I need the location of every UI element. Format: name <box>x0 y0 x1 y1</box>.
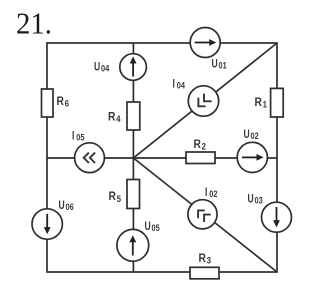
source I02 circle <box>188 200 217 229</box>
wire outer rectangle <box>47 43 277 272</box>
svg-text:02: 02 <box>251 131 259 142</box>
arrow of U04 (points up) <box>130 56 137 76</box>
svg-text:1: 1 <box>263 100 268 111</box>
svg-text:02: 02 <box>209 189 217 200</box>
svg-text:R: R <box>108 110 116 124</box>
svg-text:R: R <box>199 251 207 265</box>
source U05 circle <box>117 229 149 261</box>
svg-text:I: I <box>72 128 74 142</box>
svg-text:2: 2 <box>202 141 206 152</box>
source U03 circle <box>262 202 292 232</box>
label R6 <box>57 94 70 110</box>
resistor R6 body <box>42 89 54 117</box>
svg-text:R: R <box>57 94 65 108</box>
chevrons of I04 (point down-left, L shapes) <box>198 94 211 107</box>
svg-text:04: 04 <box>177 81 186 92</box>
svg-text:R: R <box>255 95 263 109</box>
resistor R3 body <box>190 267 219 279</box>
label I04 <box>173 77 186 92</box>
label U01 <box>212 56 228 71</box>
label R1 <box>255 95 268 111</box>
label U06 <box>59 198 74 213</box>
svg-text:5: 5 <box>117 194 122 205</box>
svg-text:U: U <box>244 127 250 141</box>
label R5 <box>109 189 122 205</box>
chevrons of I02 (point up-left, gamma shapes) <box>198 210 211 222</box>
svg-text:3: 3 <box>207 255 211 266</box>
resistor R1 body <box>271 88 284 117</box>
svg-text:R: R <box>194 137 202 151</box>
source U02 circle <box>237 142 267 172</box>
label U03 <box>248 191 263 206</box>
label R4 <box>108 110 121 126</box>
svg-text:06: 06 <box>66 202 74 213</box>
svg-text:I: I <box>205 185 207 199</box>
svg-text:21.: 21. <box>16 7 52 41</box>
arrow of U01 (points right) <box>195 39 217 46</box>
svg-text:6: 6 <box>65 98 69 109</box>
resistor R5 body <box>127 180 140 209</box>
chevrons of I05 (point left) <box>84 153 95 163</box>
svg-text:R: R <box>109 189 117 203</box>
svg-text:I: I <box>173 77 175 91</box>
svg-text:4: 4 <box>116 114 121 125</box>
svg-text:03: 03 <box>255 195 263 206</box>
svg-text:U: U <box>94 59 100 73</box>
svg-text:U: U <box>212 56 218 70</box>
label R2 <box>194 137 207 153</box>
svg-text:05: 05 <box>152 223 161 234</box>
label I05 <box>72 128 85 143</box>
svg-text:U: U <box>59 198 65 212</box>
svg-text:05: 05 <box>76 132 85 143</box>
label U02 <box>244 127 259 142</box>
wire middle vertical <box>132 43 134 272</box>
source I05 circle <box>75 143 105 173</box>
label I02 <box>205 185 218 200</box>
svg-text:01: 01 <box>219 60 228 71</box>
wire diagonal lower (center to bottom-right corner) <box>133 158 277 272</box>
arrow of U05 (points up) <box>129 235 136 255</box>
wire middle horizontal <box>47 157 277 159</box>
svg-text:U: U <box>145 219 151 233</box>
source U01 circle <box>190 28 220 58</box>
arrow of U02 (points right) <box>242 154 264 161</box>
svg-text:U: U <box>248 191 254 205</box>
label U05 <box>145 219 161 234</box>
label R3 <box>199 251 212 267</box>
source I04 circle <box>188 86 218 116</box>
label U04 <box>94 59 110 74</box>
resistor R4 body <box>127 102 140 130</box>
arrow of U03 (points down) <box>273 207 280 227</box>
resistor R2 body <box>186 152 215 164</box>
source U06 circle <box>32 209 62 239</box>
svg-text:04: 04 <box>101 63 110 74</box>
wire diagonal upper (center to top-right corner) <box>133 43 277 158</box>
source U04 circle <box>120 54 147 81</box>
arrow of U06 (points down) <box>44 214 51 234</box>
